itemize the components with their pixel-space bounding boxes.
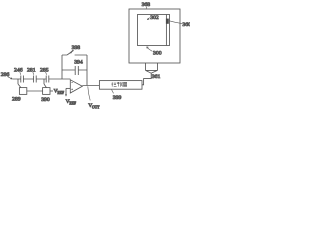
- net VREF (rail): [54, 89, 64, 95]
- svg-text:246: 246: [14, 67, 23, 73]
- svg-text:300: 300: [153, 51, 162, 57]
- svg-text:OUT: OUT: [92, 105, 100, 109]
- capacitor 246: [21, 76, 24, 83]
- svg-text:399: 399: [113, 95, 122, 101]
- wire: feedback left vertical: [61, 55, 63, 79]
- label 360: [169, 21, 191, 28]
- wire: feedback capacitor branch: [62, 69, 87, 71]
- label 289: [12, 96, 21, 102]
- op-amp 396: [70, 80, 82, 93]
- switch 289 blade: [18, 84, 21, 88]
- svg-text:361: 361: [152, 74, 161, 80]
- switch 390 box: [43, 88, 50, 95]
- label 390: [41, 97, 50, 103]
- svg-text:281: 281: [27, 67, 36, 73]
- label 285: [40, 67, 49, 75]
- wire: feedback right vertical: [86, 55, 88, 86]
- touch panel inner box 300: [138, 15, 170, 46]
- capacitor 281: [34, 76, 37, 83]
- svg-text:REF: REF: [57, 91, 64, 95]
- svg-text:390: 390: [41, 97, 50, 103]
- wire: panel lead left: [145, 63, 147, 70]
- svg-text:360: 360: [182, 22, 190, 28]
- switch 398 blade: [67, 50, 74, 55]
- wire: rail to VREF: [50, 90, 53, 92]
- touch panel outer box 368: [129, 9, 180, 63]
- label 368: [142, 2, 151, 9]
- VREF arrow at op-amp: [65, 88, 67, 96]
- connector funnel 361: [146, 70, 158, 73]
- label 300: [147, 47, 162, 57]
- net VREF (op-amp): [66, 99, 76, 105]
- switch 289 stub wire: [17, 79, 19, 84]
- electrode 360 line: [165, 15, 167, 46]
- svg-text:398: 398: [72, 45, 81, 51]
- label 246: [14, 67, 23, 75]
- controller text 控制器: [111, 82, 127, 87]
- controller box 399: [99, 81, 142, 90]
- switch 390 blade: [44, 84, 46, 88]
- wire: main input rail: [12, 78, 70, 80]
- svg-text:302: 302: [150, 15, 159, 21]
- switch 390 stub wire: [43, 79, 45, 84]
- net VOUT: [88, 86, 100, 109]
- capacitor 285: [46, 76, 49, 83]
- wire: vref rail between switches: [27, 90, 43, 92]
- op-amp plus sign: [71, 89, 73, 91]
- label 281: [27, 67, 36, 75]
- svg-text:285: 285: [40, 67, 49, 73]
- capacitor 394: [75, 66, 78, 75]
- label 399: [112, 90, 122, 101]
- label 361: [152, 74, 161, 80]
- switch 289 box: [19, 88, 26, 95]
- svg-text:394: 394: [74, 60, 83, 66]
- op-amp minus sign: [71, 81, 73, 83]
- label 302: [147, 15, 159, 21]
- label 398: [71, 45, 81, 53]
- svg-text:REF: REF: [69, 101, 76, 105]
- wire: reset switch branch: [62, 54, 87, 56]
- svg-text:368: 368: [142, 2, 151, 8]
- wire: panel to controller: [142, 73, 151, 85]
- electrode 360 contact pad: [166, 19, 169, 24]
- node 286 label: [1, 72, 12, 79]
- svg-text:289: 289: [12, 96, 21, 102]
- wire: panel lead right: [157, 63, 159, 70]
- wire: op-amp output: [82, 85, 99, 87]
- wire: non-inverting input stub: [66, 87, 70, 89]
- label 394: [74, 60, 83, 66]
